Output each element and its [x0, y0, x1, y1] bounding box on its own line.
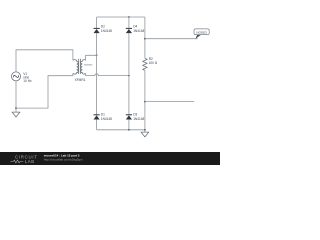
label D3 1N4148 [133, 113, 144, 121]
wire: top output rail [97, 16, 145, 18]
wire: transformer primary bottom return to source ground [16, 73, 73, 108]
label D4 1N4148 [133, 25, 144, 33]
wire: bridge left leg [96, 17, 98, 130]
label V1 sine 10 Hz [23, 72, 32, 83]
transformer XFMR1 [73, 59, 86, 74]
svg-text:D4: D4 [133, 25, 137, 29]
svg-text:1N4148: 1N4148 [101, 117, 112, 121]
junction: secondary bottom on right leg [128, 75, 130, 77]
diode D4 [126, 28, 132, 33]
diode D1 [94, 115, 100, 120]
label R2 100 Ohm [149, 57, 158, 65]
svg-text:1N4148: 1N4148 [133, 29, 144, 33]
diode D2 [94, 28, 100, 33]
footer CircuitLab logo [10, 154, 37, 164]
svg-text:1N4148: 1N4148 [133, 117, 144, 121]
ground (source side) [12, 112, 20, 117]
wire: bottom rail [97, 129, 145, 131]
ground (load side) [141, 132, 149, 137]
junction: secondary top on left leg [96, 54, 98, 56]
junction: output stub on load rail [144, 101, 146, 103]
junction: right leg on bottom rail [128, 129, 130, 131]
svg-text:LAB: LAB [25, 159, 35, 164]
svg-text:100 Ω: 100 Ω [149, 61, 158, 65]
wire: V1 top to transformer primary top [16, 50, 73, 72]
transformer secondary center tap stub [84, 64, 92, 66]
wire: output stub (dangling) [145, 101, 194, 103]
svg-text:1N4148: 1N4148 [101, 29, 112, 33]
svg-text:NODE3: NODE3 [196, 30, 207, 34]
junction: V1 ground node [15, 107, 17, 109]
junction: node wire on load rail [144, 38, 146, 40]
wire: to NODE3 tag [145, 38, 198, 40]
footer bar [0, 152, 220, 165]
junction: bottom rail to ground leg [144, 129, 146, 131]
wire: bridge right leg [128, 17, 130, 130]
wire: secondary bottom to bridge right leg (hop over left leg) [86, 74, 129, 76]
svg-text:10 Hz: 10 Hz [23, 79, 32, 83]
svg-text:http://circuitlab.com/c5sg5qm: http://circuitlab.com/c5sg5qm [44, 158, 83, 162]
resistor R2 [143, 58, 148, 70]
diode D3 [126, 115, 132, 120]
wire: load branch (R2 rail) [144, 17, 146, 132]
wire: V1 bottom to ground [15, 81, 17, 112]
label D1 1N4148 [101, 113, 112, 121]
svg-text:D2: D2 [101, 25, 105, 29]
svg-text:XFMR1: XFMR1 [75, 78, 86, 82]
junction: right leg to top rail [128, 16, 130, 18]
voltage source V1 [12, 72, 21, 81]
label D2 1N4148 [101, 25, 112, 33]
node label NODE3 [194, 29, 209, 39]
wire: secondary top to bridge left leg [86, 55, 97, 60]
